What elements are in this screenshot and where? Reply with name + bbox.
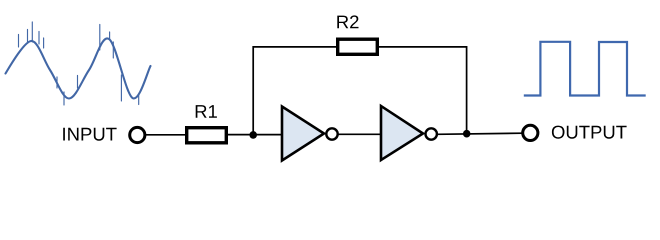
input terminal (130, 127, 145, 142)
INPUT label (63, 128, 116, 141)
resistor R1 (187, 128, 227, 143)
wire U1 to U2 (338, 133, 381, 135)
square wave output signal (524, 42, 646, 96)
feedback wire left vertical (253, 47, 336, 135)
inverter U2 (381, 106, 437, 160)
R2 value label (337, 15, 358, 28)
node A junction dot (249, 131, 257, 139)
OUTPUT label (552, 126, 627, 139)
inverter U1 (282, 107, 338, 161)
node B junction dot (463, 130, 471, 138)
wire R1 to node A (228, 134, 282, 136)
wire U2 output to terminal (437, 133, 522, 134)
feedback wire right vertical (379, 47, 467, 134)
resistor R2 (338, 39, 378, 54)
output terminal (523, 125, 538, 140)
wire input terminal to R1 (145, 134, 186, 136)
noisy sine wave input signal (6, 22, 151, 105)
R1 value label (196, 105, 217, 118)
